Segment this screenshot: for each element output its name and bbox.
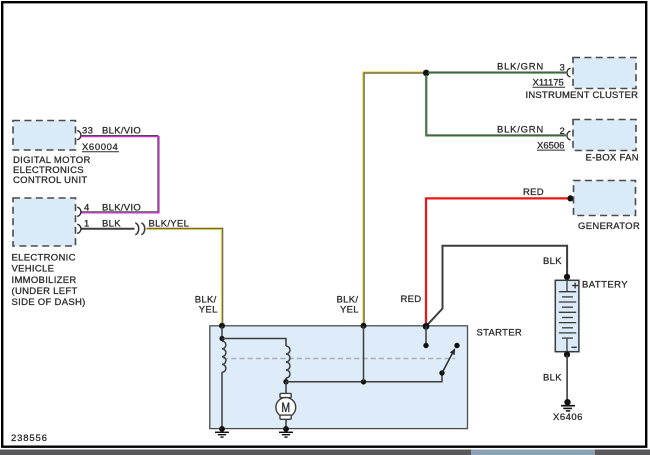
battery G1 xyxy=(555,280,579,351)
wire across to switch xyxy=(286,374,442,382)
switch contact node (motor side) xyxy=(454,343,459,348)
svg-text:INSTRUMENT CLUSTER: INSTRUMENT CLUSTER xyxy=(526,90,639,101)
svg-text:BLK/VIO: BLK/VIO xyxy=(102,202,141,213)
component box: INSTRUMENT CLUSTER (dashed) xyxy=(573,58,636,89)
svg-text:SIDE OF DASH): SIDE OF DASH) xyxy=(12,297,86,308)
switch arm with arrow xyxy=(442,348,455,373)
wire BLK/GRN to instrument cluster xyxy=(428,72,566,73)
wire BLK battery to ground xyxy=(566,355,568,400)
motor M1 (starter motor) xyxy=(276,393,296,419)
svg-text:YEL: YEL xyxy=(199,304,218,315)
control unit U1: DIGITAL MOTOR ELECTRONICS (dashed box) xyxy=(13,121,76,151)
generator terminal dot xyxy=(567,195,573,201)
svg-text:2: 2 xyxy=(560,126,566,137)
svg-text:BLK/VIO: BLK/VIO xyxy=(102,126,141,137)
svg-text:E-BOX FAN: E-BOX FAN xyxy=(586,153,639,164)
svg-text:4: 4 xyxy=(84,202,90,213)
scrollbar track xyxy=(0,450,650,455)
wire motor node to motor xyxy=(285,382,287,393)
wire label BLK/YEL (left vertical, two lines) xyxy=(195,294,218,315)
ground (starter left) xyxy=(215,426,229,437)
junction node on starter (BLK/YEL middle) xyxy=(361,323,367,329)
svg-text:RED: RED xyxy=(523,187,544,198)
battery top terminal node xyxy=(564,274,570,280)
pin 33 bracket xyxy=(77,131,81,140)
pin 3 bracket xyxy=(567,68,571,77)
wire: feed to solenoid coils xyxy=(221,326,223,340)
wire BLK from battery + to starter junction xyxy=(426,246,567,326)
wire to coil 2 top xyxy=(222,339,286,347)
wire RED from generator to starter xyxy=(426,198,569,326)
battery - sign xyxy=(571,346,576,348)
svg-text:BLK: BLK xyxy=(543,256,562,267)
svg-text:(UNDER LEFT: (UNDER LEFT xyxy=(12,286,78,297)
component box: GENERATOR (dashed) xyxy=(574,181,636,216)
svg-text:YEL: YEL xyxy=(340,304,359,315)
ground (starter motor) xyxy=(279,426,293,437)
ground X6406 xyxy=(561,399,575,411)
U2 caption xyxy=(12,253,86,308)
wire label BLK/YEL (middle vertical, two lines) xyxy=(337,294,359,315)
junction node (top) xyxy=(423,70,430,77)
junction node on starter (BLK/YEL left) xyxy=(219,323,225,329)
wire motor to ground xyxy=(285,419,287,428)
svg-text:VEHICLE: VEHICLE xyxy=(12,264,55,275)
pin 1 bracket xyxy=(77,224,81,233)
junction node (coil feed split) xyxy=(219,336,224,341)
wire BLK/YEL middle drop inside box xyxy=(363,326,365,382)
junction node (motor/coil) xyxy=(283,379,288,384)
switch pivot node xyxy=(439,370,444,375)
svg-text:GENERATOR: GENERATOR xyxy=(578,221,640,232)
connector X11175 xyxy=(533,78,566,89)
pin 4 bracket xyxy=(77,207,81,216)
scrollbar thumb xyxy=(471,450,595,455)
svg-text:BLK/GRN: BLK/GRN xyxy=(497,62,544,73)
U1 caption xyxy=(13,155,91,186)
svg-text:BLK/GRN: BLK/GRN xyxy=(497,125,544,136)
switch contact node (battery side) xyxy=(423,343,428,348)
svg-text:BATTERY: BATTERY xyxy=(582,280,628,291)
svg-text:X6406: X6406 xyxy=(553,412,583,423)
svg-text:BLK: BLK xyxy=(543,373,562,384)
svg-text:STARTER: STARTER xyxy=(477,327,523,338)
wire BLK/GRN to e-box fan xyxy=(426,75,566,136)
solenoid coil L1 (pull-in winding) xyxy=(222,341,226,372)
svg-text:3: 3 xyxy=(560,63,566,74)
wire BLK/VIO (purple) from pin 33 to pin 4 xyxy=(81,136,159,213)
wire coil L2 to motor node xyxy=(285,378,287,382)
svg-text:M: M xyxy=(281,400,290,416)
pin 2 bracket xyxy=(567,131,571,140)
svg-text:33: 33 xyxy=(82,126,93,137)
mechanical link (dashed) xyxy=(223,358,455,360)
starter assembly box xyxy=(210,326,468,429)
inline connector splice )) xyxy=(135,223,144,235)
svg-text:238556: 238556 xyxy=(11,433,48,444)
component box: E-BOX FAN (dashed) xyxy=(573,120,636,151)
battery + sign xyxy=(572,283,578,289)
connector X6506 xyxy=(537,140,565,151)
junction node on starter (RED + BLK) xyxy=(423,323,430,330)
solenoid coil L2 (hold-in winding) xyxy=(286,346,290,378)
battery bottom terminal node xyxy=(564,352,570,358)
wire BLK from pin 1 to splice xyxy=(81,228,135,230)
svg-text:ELECTRONIC: ELECTRONIC xyxy=(12,253,76,264)
svg-text:CONTROL UNIT: CONTROL UNIT xyxy=(13,175,88,186)
wire BLK/YEL from splice down to starter xyxy=(147,228,223,326)
connector X60004 xyxy=(82,142,119,153)
wire BLK/YEL from junction down to starter (second) xyxy=(363,72,424,326)
wire stub below RED junction xyxy=(425,326,427,343)
svg-text:RED: RED xyxy=(401,294,422,305)
control unit U2: ELECTRONIC VEHICLE IMMOBILIZER (dashed box) xyxy=(13,198,76,246)
wire coil L1 to ground xyxy=(221,372,223,428)
svg-text:IMMOBILIZER: IMMOBILIZER xyxy=(12,275,77,286)
junction node (BLK/YEL middle drop) xyxy=(361,379,366,384)
